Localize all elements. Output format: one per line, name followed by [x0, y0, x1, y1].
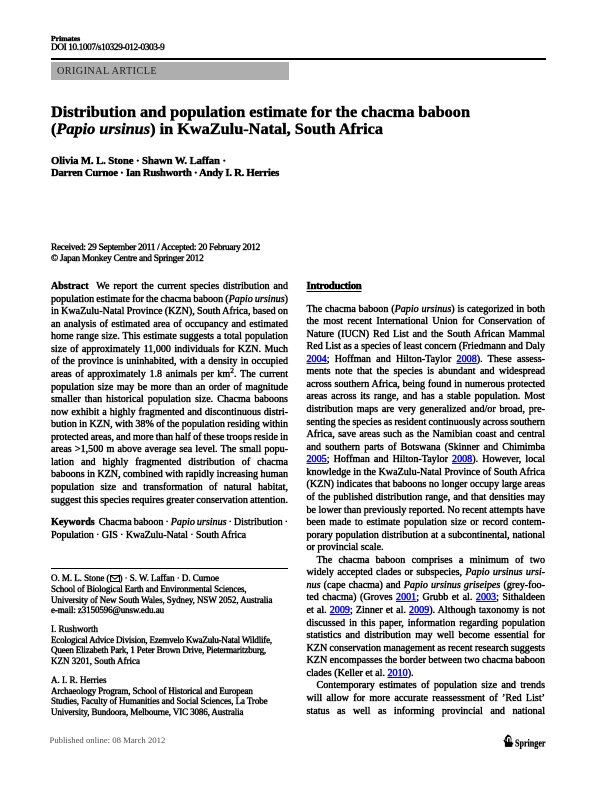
authors: [51, 155, 226, 168]
received / accepted: [51, 243, 260, 254]
abstract: [51, 281, 288, 507]
footnote 3: [51, 675, 268, 718]
title: [51, 103, 470, 121]
springer logo: [502, 734, 550, 755]
footnote divider: [51, 568, 288, 569]
published online: [50, 735, 166, 745]
DOI: [51, 43, 164, 54]
footnote 1: [51, 573, 272, 616]
footnote 2: [51, 624, 272, 667]
Introduction heading: [307, 280, 362, 292]
top rule: [51, 58, 546, 60]
right column: [307, 304, 546, 719]
gray banner: [51, 62, 289, 80]
journal name: [51, 34, 80, 43]
svg-text:Springer: Springer: [515, 738, 546, 749]
keywords: [51, 517, 288, 542]
